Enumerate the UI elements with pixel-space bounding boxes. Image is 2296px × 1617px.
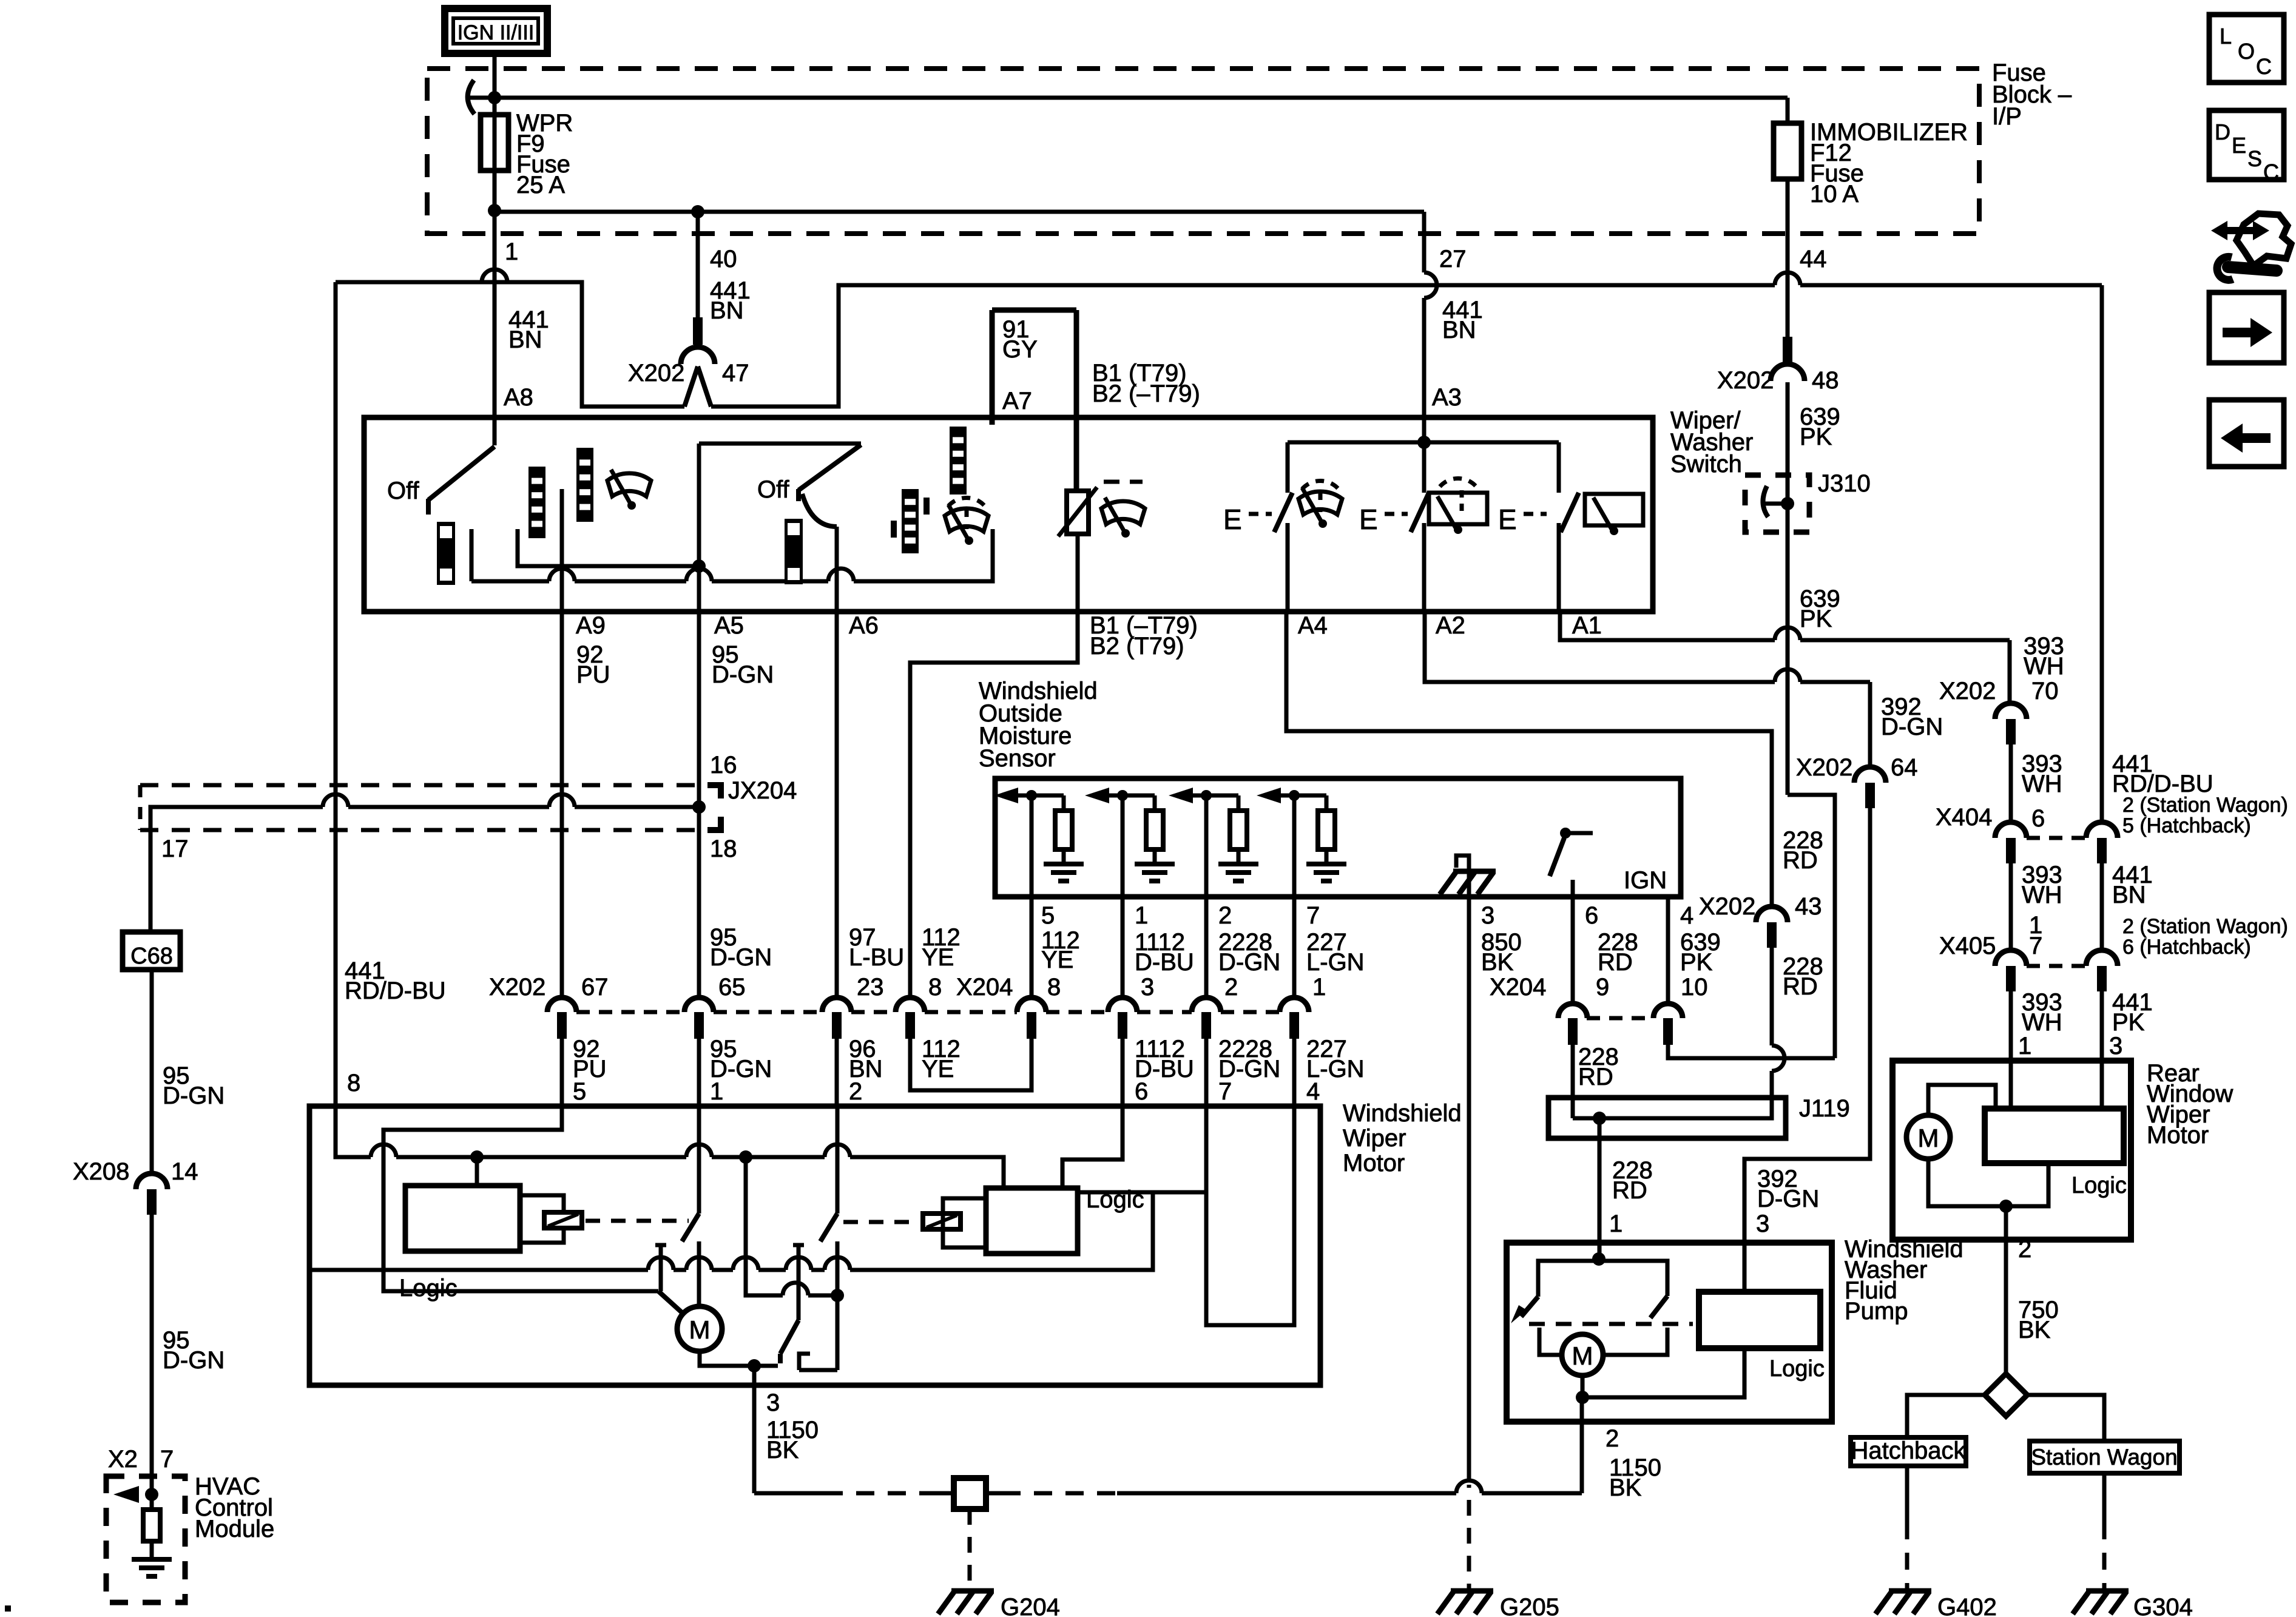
svg-text:I/P: I/P bbox=[1992, 103, 2022, 130]
svg-text:X202: X202 bbox=[1939, 678, 1996, 704]
connector X202 pin 65 bbox=[684, 998, 714, 1012]
motor M return bbox=[700, 1351, 778, 1366]
wire A2 392 D-GN output bbox=[1425, 612, 1775, 682]
wire A9 inside switch bbox=[560, 489, 564, 612]
svg-text:GY: GY bbox=[1002, 336, 1038, 363]
svg-text:BK: BK bbox=[766, 1437, 799, 1463]
wire A2 down to X202-64 bbox=[1868, 682, 1872, 766]
motor M circle bbox=[677, 1306, 722, 1351]
svg-text:YE: YE bbox=[922, 1056, 954, 1082]
pump output wire bbox=[1580, 1397, 1584, 1422]
wire to Station Wagon bbox=[2027, 1395, 2104, 1441]
switch 6 blade bbox=[1561, 493, 1579, 532]
motor logic2 box bbox=[986, 1188, 1078, 1254]
terminal box 91 GY A7 bbox=[992, 308, 1076, 313]
motor relay2 link dashes bbox=[843, 1220, 917, 1224]
svg-text:8: 8 bbox=[347, 1070, 360, 1096]
svg-text:Motor: Motor bbox=[1343, 1150, 1405, 1176]
svg-text:J310: J310 bbox=[1818, 470, 1871, 497]
bump bus over A5 bbox=[686, 569, 712, 581]
connector X202 pin 23 bbox=[822, 998, 851, 1012]
wire 1150 BK windshield motor bbox=[752, 1366, 757, 1493]
switch 5 blade bbox=[1411, 493, 1429, 532]
svg-text:X405: X405 bbox=[1939, 933, 1996, 959]
bump JX204 wire over 92PU wire bbox=[549, 794, 575, 807]
ground G204 bbox=[938, 1591, 994, 1614]
svg-text:25 A: 25 A bbox=[516, 172, 565, 198]
svg-text:D-BU: D-BU bbox=[1135, 949, 1194, 976]
connector X202 pin 47 bbox=[693, 317, 703, 345]
motor park return U bbox=[799, 1368, 837, 1372]
svg-text:D-GN: D-GN bbox=[712, 661, 774, 688]
motor relay1 contact stub bbox=[655, 1243, 666, 1247]
wire 92 PU A9 down bbox=[560, 612, 564, 999]
switch 2 contact arc to A6 bbox=[802, 494, 837, 527]
splice J119 box bbox=[1548, 1098, 1786, 1138]
svg-text:BK: BK bbox=[1481, 949, 1514, 976]
svg-text:18: 18 bbox=[710, 836, 737, 862]
switch 3 striped bar a bbox=[902, 489, 919, 553]
fuse F12 IMMOBILIZER 10A bbox=[1786, 98, 1790, 124]
ground G402 bbox=[1876, 1591, 1931, 1614]
svg-text:RD: RD bbox=[1598, 949, 1633, 976]
svg-text:5 (Hatchback): 5 (Hatchback) bbox=[2122, 814, 2251, 837]
JX204 internal wire to pin 17 bbox=[575, 805, 695, 809]
svg-text:3: 3 bbox=[1141, 974, 1154, 1001]
svg-text:A7: A7 bbox=[1002, 388, 1032, 414]
wire Station Wagon to G304 bbox=[2102, 1473, 2107, 1522]
svg-text:E: E bbox=[1498, 504, 1517, 535]
wire 95 D-GN to HVAC bbox=[150, 1215, 154, 1494]
pump right contact bbox=[1604, 1328, 1667, 1355]
svg-text:PK: PK bbox=[1680, 949, 1713, 976]
icon diagnostic hood outline bbox=[2237, 214, 2291, 266]
connector X202 row dashed line bbox=[576, 1010, 684, 1014]
wire 2228 D-GN sensor pin 2 bbox=[1204, 897, 1209, 999]
connector X202 pin 67 bbox=[547, 998, 576, 1012]
svg-text:70: 70 bbox=[2031, 678, 2059, 704]
switch 4 blade bbox=[1274, 493, 1292, 532]
pump left contact bbox=[1539, 1328, 1561, 1355]
switch 5 link dashes bbox=[1385, 512, 1408, 516]
rear motor M top wire bbox=[1928, 1085, 1996, 1115]
svg-text:5: 5 bbox=[573, 1078, 586, 1105]
washer icon A2 bbox=[1429, 493, 1487, 524]
page corner mark bbox=[5, 1605, 11, 1612]
svg-text:D-GN: D-GN bbox=[163, 1347, 225, 1374]
icon back arrow box bbox=[2209, 400, 2284, 467]
svg-text:Motor: Motor bbox=[2147, 1122, 2209, 1149]
svg-text:2: 2 bbox=[1224, 974, 1238, 1001]
wire 392 D-GN down bbox=[1744, 808, 1870, 1292]
svg-text:5: 5 bbox=[1041, 902, 1055, 929]
icon DESC box bbox=[2209, 110, 2284, 180]
wire 1112 D-BU below X202 bbox=[1121, 1039, 1125, 1106]
svg-text:16: 16 bbox=[710, 752, 737, 778]
node switch1 to A5 bbox=[692, 559, 706, 573]
sensor cell 1 pin wire bbox=[1030, 795, 1034, 897]
sensor cell 4 arrow bbox=[1257, 788, 1281, 803]
svg-text:J119: J119 bbox=[1799, 1095, 1850, 1122]
node pump return bbox=[1576, 1391, 1589, 1404]
wiper/washer switch box bbox=[364, 417, 1653, 612]
svg-text:WH: WH bbox=[2022, 882, 2062, 908]
connector X202 pin 48 bbox=[1783, 337, 1792, 362]
svg-text:PK: PK bbox=[2112, 1009, 2145, 1036]
svg-text:D-GN: D-GN bbox=[710, 944, 772, 971]
fuse F9 WPR 25A bbox=[493, 115, 497, 170]
wire 95 D-GN HVAC branch bbox=[150, 970, 154, 1173]
svg-text:2 (Station Wagon): 2 (Station Wagon) bbox=[2122, 794, 2288, 817]
bump bus over A9 bbox=[549, 569, 575, 581]
svg-text:6: 6 bbox=[2031, 805, 2045, 832]
svg-text:44: 44 bbox=[1800, 246, 1827, 272]
icon wrench bbox=[2228, 267, 2277, 271]
switch 3 tick b bbox=[923, 498, 930, 515]
node H1 parkswitch feed bbox=[739, 1150, 752, 1164]
motor relay1 blade bbox=[697, 1106, 701, 1214]
svg-text:PK: PK bbox=[1800, 606, 1832, 632]
splice diamond bbox=[1985, 1374, 2027, 1416]
svg-text:A9: A9 bbox=[576, 612, 606, 639]
svg-text:BN: BN bbox=[2112, 882, 2146, 908]
wire 95 D-GN A5 down bbox=[697, 612, 701, 808]
motor pin6 wire bbox=[1062, 1106, 1123, 1188]
switch 1 contact stub L2 to A5 bbox=[518, 529, 695, 566]
ground G304 bbox=[2073, 1591, 2129, 1614]
svg-text:RD: RD bbox=[1578, 1064, 1613, 1090]
junction block JX204 dashed box bbox=[140, 783, 695, 788]
node parkswitch link bbox=[831, 1289, 844, 1302]
pump logic bottom wire bbox=[1582, 1348, 1744, 1397]
svg-text:17: 17 bbox=[161, 836, 189, 862]
wire 441 RD/D-BU down to X404 bbox=[2100, 285, 2104, 825]
sensor cell 4 pin wire bbox=[1292, 795, 1297, 897]
switch 5 contact stub A2 bbox=[1422, 523, 1427, 612]
svg-text:A2: A2 bbox=[1436, 612, 1465, 639]
wire 441 RD/D-BU main drop bbox=[334, 282, 338, 1106]
wire 639 PK sensor pin 4 bbox=[1666, 897, 1670, 1004]
svg-text:WH: WH bbox=[2022, 771, 2062, 797]
node A3 inner bus bbox=[1417, 436, 1431, 449]
connector X202 pin 3 bbox=[1108, 998, 1137, 1012]
svg-text:8: 8 bbox=[1047, 974, 1061, 1001]
svg-text:1: 1 bbox=[505, 238, 518, 265]
svg-text:4: 4 bbox=[1680, 902, 1693, 929]
wire A1 down to X202-70 bbox=[2008, 640, 2012, 704]
svg-text:WH: WH bbox=[2022, 1009, 2062, 1036]
windshield washer fluid pump box bbox=[1507, 1243, 1832, 1422]
pump link dashes bbox=[1529, 1322, 1693, 1326]
svg-text:D-GN: D-GN bbox=[1218, 949, 1280, 976]
svg-text:A8: A8 bbox=[504, 384, 533, 411]
svg-text:Off: Off bbox=[757, 476, 790, 503]
mech link dashes A7 bbox=[1104, 480, 1143, 484]
motor relay2 contact stub bbox=[793, 1243, 804, 1247]
svg-text:3: 3 bbox=[1481, 902, 1494, 929]
svg-text:2: 2 bbox=[1606, 1425, 1619, 1452]
svg-text:M: M bbox=[1572, 1342, 1593, 1370]
wiper icon A7 delay bbox=[1101, 498, 1145, 532]
splice J310 curl bbox=[1763, 486, 1768, 517]
rear motor M bbox=[1906, 1115, 1950, 1159]
svg-text:1: 1 bbox=[1312, 974, 1326, 1001]
wire 393 WH between X404 X405 bbox=[2009, 863, 2013, 953]
svg-text:L: L bbox=[2220, 24, 2232, 49]
connector X404 bbox=[2027, 836, 2085, 840]
svg-text:Logic: Logic bbox=[1769, 1356, 1825, 1382]
bump A3 over feed wire bbox=[1424, 272, 1437, 298]
wire Hatchback to G402 bbox=[1905, 1466, 1909, 1522]
switch 6 link dashes bbox=[1524, 512, 1547, 516]
sensor cell 3 resistor bbox=[1237, 795, 1241, 811]
sensor cell 3 ground bbox=[1218, 864, 1258, 881]
svg-text:6: 6 bbox=[1135, 1078, 1148, 1105]
svg-text:14: 14 bbox=[171, 1158, 198, 1185]
svg-text:47: 47 bbox=[722, 360, 749, 387]
svg-text:RD: RD bbox=[1783, 847, 1818, 874]
wire A3 bus inside switch bbox=[1422, 417, 1427, 493]
motor park contact stub bbox=[799, 1354, 810, 1370]
wire 92 PU below X202 bbox=[560, 1039, 564, 1106]
svg-text:RD/D-BU: RD/D-BU bbox=[345, 977, 446, 1004]
switch 1 blade from A8 bbox=[493, 417, 497, 445]
svg-text:G402: G402 bbox=[1937, 1594, 1997, 1617]
wire 850 BK to G205 bbox=[1467, 1485, 1471, 1488]
node fuse feed junction bbox=[488, 91, 501, 104]
wire 227 L-GN below X202 bbox=[1292, 1039, 1297, 1106]
wire 639 PK jog to sensor feed bbox=[1788, 795, 1835, 1058]
wire 441 BN between X404 X405 bbox=[2100, 863, 2104, 953]
connector X208 pin 14 bbox=[136, 1173, 167, 1189]
motor pin4 riser bbox=[1078, 1190, 1206, 1195]
svg-text:S: S bbox=[2247, 146, 2262, 171]
svg-text:BK: BK bbox=[1609, 1474, 1642, 1501]
svg-text:Off: Off bbox=[387, 478, 420, 504]
svg-text:YE: YE bbox=[922, 944, 954, 971]
svg-text:RD: RD bbox=[1612, 1177, 1647, 1204]
svg-text:C68: C68 bbox=[130, 944, 173, 969]
switch contact bus line bbox=[471, 579, 549, 584]
motor relay1 coil bbox=[544, 1212, 582, 1228]
sensor cell 2 ground bbox=[1135, 864, 1175, 881]
svg-text:G204: G204 bbox=[1001, 1594, 1060, 1617]
variable resistor on A7 wire bbox=[1067, 491, 1089, 534]
svg-text:G304: G304 bbox=[2133, 1594, 2193, 1617]
switch 1 striped bar b bbox=[576, 448, 593, 522]
sensor cell 4 ground bbox=[1306, 864, 1346, 881]
wire to Hatchback bbox=[1907, 1395, 1985, 1437]
bump A2 over 639 PK bbox=[1775, 669, 1800, 682]
wire 393 WH to rear motor bbox=[2009, 991, 2013, 1109]
svg-text:BN: BN bbox=[1442, 317, 1476, 343]
svg-text:Windshield: Windshield bbox=[1343, 1100, 1462, 1127]
node pump input bbox=[1592, 1252, 1606, 1266]
connector X204 pin 9 bbox=[1587, 1016, 1654, 1021]
svg-text:O: O bbox=[2238, 39, 2255, 64]
svg-text:Module: Module bbox=[195, 1516, 274, 1542]
wiper with washer icon right bbox=[945, 505, 988, 539]
connector X202 pin 64 bbox=[1854, 767, 1886, 783]
rear motor logic box bbox=[1985, 1109, 2124, 1163]
svg-text:X2: X2 bbox=[108, 1446, 138, 1473]
node below fuse F9 bbox=[488, 204, 501, 217]
switch 6 contact stub A1 bbox=[1557, 523, 1561, 612]
rear washer icon A1 bbox=[1585, 494, 1643, 525]
Station Wagon box bbox=[2030, 1441, 2180, 1473]
svg-text:1: 1 bbox=[1135, 902, 1148, 929]
switch inner bus top bbox=[1288, 441, 1559, 445]
connector X202 pin 70 bbox=[1995, 703, 2027, 719]
svg-text:C: C bbox=[2263, 160, 2279, 184]
windshield wiper motor box bbox=[309, 1106, 1320, 1385]
svg-text:7: 7 bbox=[1306, 902, 1320, 929]
connector X204 pin 10 bbox=[1653, 1004, 1683, 1018]
svg-text:Sensor: Sensor bbox=[979, 745, 1056, 772]
node feed to X202-47 drop bbox=[691, 205, 704, 218]
pump logic box bbox=[1699, 1292, 1820, 1348]
svg-text:PK: PK bbox=[1800, 424, 1832, 450]
svg-text:X202: X202 bbox=[489, 974, 545, 1001]
wire 97 L-BU A6 down bbox=[835, 612, 839, 999]
node HVAC input bbox=[145, 1488, 158, 1501]
sensor cell 2 pin wire bbox=[1121, 795, 1125, 897]
svg-text:D-GN: D-GN bbox=[1881, 714, 1943, 740]
wire 441 PK to rear motor bbox=[2100, 991, 2104, 1109]
sensor cell 1 ground bbox=[1044, 864, 1084, 881]
wire 228 RD J119 to pump bbox=[1598, 1118, 1602, 1258]
svg-text:BN: BN bbox=[508, 326, 542, 353]
svg-text:D: D bbox=[2215, 120, 2230, 144]
svg-text:7: 7 bbox=[1218, 1078, 1232, 1105]
svg-text:PU: PU bbox=[576, 661, 610, 688]
svg-text:1: 1 bbox=[2018, 1033, 2031, 1059]
svg-text:1: 1 bbox=[710, 1078, 723, 1105]
wire 850 BK sensor pin 3 bbox=[1467, 897, 1471, 1480]
washer+wiper icon A4 bbox=[1298, 488, 1342, 522]
svg-text:7: 7 bbox=[160, 1446, 174, 1473]
motor logic1 box bbox=[405, 1186, 520, 1251]
ground run G204 to G205 bbox=[1002, 1491, 1117, 1496]
svg-text:D-GN: D-GN bbox=[163, 1082, 225, 1109]
wire 441 RD/D-BU feed from switch contact bbox=[336, 282, 684, 407]
motor relay2 coil bbox=[923, 1214, 961, 1229]
svg-text:6 (Hatchback): 6 (Hatchback) bbox=[2122, 936, 2251, 959]
svg-text:G205: G205 bbox=[1500, 1594, 1559, 1617]
svg-text:L-GN: L-GN bbox=[1306, 949, 1365, 976]
pump M circle bbox=[1562, 1334, 1603, 1376]
svg-text:Pump: Pump bbox=[1845, 1298, 1908, 1325]
svg-text:X208: X208 bbox=[73, 1158, 129, 1185]
motor bus H1 from pin 8 bbox=[336, 1106, 371, 1157]
svg-text:X204: X204 bbox=[1490, 974, 1546, 1001]
wire 227 L-GN A4 output bbox=[1286, 612, 1772, 908]
svg-text:E: E bbox=[2232, 133, 2246, 158]
svg-text:WH: WH bbox=[2024, 653, 2064, 680]
svg-text:IGN II/III: IGN II/III bbox=[458, 21, 535, 44]
bump H1 over relay1 bbox=[686, 1144, 712, 1157]
icon double arrow bbox=[2211, 221, 2269, 240]
pump input staple bbox=[1538, 1261, 1667, 1297]
moisture sensor box bbox=[995, 778, 1681, 897]
wire A5 inside switch bbox=[697, 444, 701, 612]
ground distribution box G204 bbox=[954, 1478, 986, 1509]
svg-text:Station Wagon: Station Wagon bbox=[2031, 1445, 2177, 1470]
wire 95 D-GN A5 to X202-65 bbox=[697, 808, 701, 999]
power feed tag IGN II/III bbox=[445, 8, 547, 53]
node rear motor output bbox=[1999, 1200, 2013, 1213]
svg-text:6: 6 bbox=[1585, 902, 1598, 929]
connector X202 pin 43 bbox=[1756, 906, 1788, 922]
sensor cell 3 arrow bbox=[1169, 788, 1193, 803]
svg-text:L-BU: L-BU bbox=[849, 944, 904, 971]
svg-text:YE: YE bbox=[1041, 947, 1073, 973]
motor parkswitch feed drop bbox=[746, 1157, 783, 1295]
svg-text:2: 2 bbox=[2018, 1236, 2031, 1263]
wire B1/B2 inside switch bbox=[1076, 534, 1080, 612]
svg-text:9: 9 bbox=[1596, 974, 1609, 1001]
node J119 bbox=[1593, 1112, 1606, 1125]
svg-text:A6: A6 bbox=[849, 612, 879, 639]
node motor ground bbox=[748, 1359, 761, 1372]
wire 112 YE sensor pin 5 bbox=[1030, 897, 1034, 999]
svg-text:3: 3 bbox=[2109, 1033, 2122, 1059]
svg-text:7: 7 bbox=[2029, 933, 2042, 959]
wire fuse F9 output to X202-47 drop bbox=[495, 210, 698, 214]
ground G205 bbox=[1437, 1591, 1493, 1614]
wiper icon low/high bbox=[607, 470, 651, 504]
svg-text:1: 1 bbox=[1609, 1210, 1622, 1237]
svg-text:M: M bbox=[1918, 1124, 1939, 1152]
switch 4 contact stub A4 bbox=[1286, 523, 1290, 612]
svg-text:Logic: Logic bbox=[2071, 1173, 2127, 1198]
switch 3 striped bar b bbox=[950, 427, 967, 495]
node JX204 bbox=[692, 800, 706, 814]
switch 1 striped bar a bbox=[528, 467, 545, 538]
fuse block I/P dashed box bbox=[427, 69, 1979, 234]
svg-text:C: C bbox=[2256, 54, 2272, 79]
wire 228 RD below X204-9 bbox=[1571, 1045, 1575, 1098]
rear window wiper motor box bbox=[1893, 1061, 2131, 1240]
svg-text:10: 10 bbox=[1681, 974, 1708, 1001]
svg-text:4: 4 bbox=[1306, 1078, 1320, 1105]
switch 4 link dashes bbox=[1249, 512, 1272, 516]
wire 228 RD below X202-43 bbox=[1770, 948, 1774, 1045]
motor pin7 wire bbox=[1206, 1106, 1294, 1325]
motor relay2 blade bbox=[836, 1106, 840, 1214]
svg-text:B2 (–T79): B2 (–T79) bbox=[1092, 380, 1200, 407]
svg-text:Switch: Switch bbox=[1670, 451, 1742, 478]
svg-text:RD: RD bbox=[1783, 973, 1818, 1000]
svg-text:BN: BN bbox=[710, 297, 744, 324]
wire 1150 BK washer pump bbox=[1580, 1422, 1584, 1493]
svg-text:67: 67 bbox=[581, 974, 609, 1001]
motor relay1 coil bracket bbox=[520, 1195, 564, 1212]
svg-text:A4: A4 bbox=[1298, 612, 1328, 639]
wire feed to IMMOBILIZER fuse bbox=[495, 96, 1788, 100]
pump blade left with arrow bbox=[1521, 1297, 1538, 1317]
splice curl in fuse block bbox=[468, 80, 474, 114]
bump 228 RD over sensor feed bbox=[1772, 1045, 1784, 1071]
connector X204 pin 8a bbox=[896, 998, 925, 1012]
wire 227 L-GN sensor pin 7 bbox=[1292, 897, 1297, 999]
wire 112 YE U-loop below X204 bbox=[910, 1039, 1032, 1090]
motor relay1 link dashes bbox=[586, 1219, 689, 1223]
switch 2 contact bar bbox=[785, 519, 803, 584]
wire 639 PK to sensor feed bbox=[1668, 1045, 1835, 1058]
sensor cell 1 resistor bbox=[1062, 795, 1066, 811]
connector X202 pin 1 bbox=[1280, 998, 1309, 1012]
